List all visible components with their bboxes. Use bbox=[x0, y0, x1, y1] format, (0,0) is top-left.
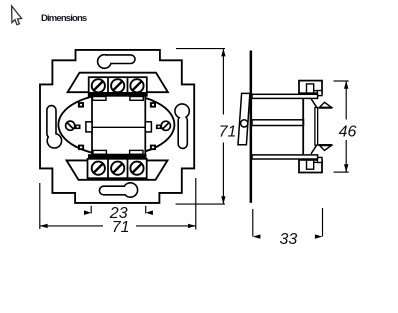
front view: contact square top-left bbox=[78, 102, 84, 108]
front view: left claw screw bbox=[66, 121, 81, 130]
side view: top claw tooth bbox=[318, 102, 332, 108]
side view: middle bar bbox=[252, 120, 304, 126]
extension line: front left (bottom 71 dim) bbox=[39, 183, 41, 229]
svg-text:71: 71 bbox=[219, 124, 237, 141]
mouse cursor icon bbox=[12, 6, 22, 25]
front view: top lug right bbox=[130, 97, 143, 101]
side view: claw screw head bbox=[241, 120, 248, 127]
front view: bottom lug right bbox=[130, 150, 143, 154]
dimension line: right 71 upper segment bbox=[222, 49, 224, 115]
front view: contact square bottom-right bbox=[150, 145, 156, 151]
front view: central ellipse body bbox=[58, 94, 174, 156]
front view: left mid tab bbox=[86, 122, 92, 132]
extension line: front top (right 71 dim) bbox=[176, 48, 225, 50]
arrowhead: bottom 71 left bbox=[40, 224, 48, 228]
svg-text:33: 33 bbox=[280, 231, 298, 248]
front view: contact square bottom-left bbox=[78, 145, 84, 151]
front view: bottom terminal block divider 2 bbox=[127, 159, 129, 178]
arrowhead: 46 top bbox=[344, 81, 348, 89]
front view: right keyhole slot bbox=[176, 105, 189, 148]
front view: top terminal block box bbox=[89, 77, 147, 96]
arrowhead: 33 right bbox=[315, 234, 323, 238]
side view: bottom support bracket bbox=[299, 157, 322, 172]
extension line: side bottom (46 dim) bbox=[334, 171, 349, 173]
front view: bottom black clamp band bbox=[88, 154, 147, 159]
dimension line: right 71 lower segment bbox=[222, 143, 224, 205]
extension line: front bottom (right 71 dim) bbox=[176, 203, 225, 205]
front view: top terminal screw 3 bbox=[130, 79, 143, 92]
side view: claw lever bbox=[238, 93, 250, 144]
front view: top terminal screw 1 bbox=[92, 79, 105, 92]
front view: switch insert plate outline (71 x 71) bbox=[40, 50, 194, 203]
extension line: front right (bottom 71 dim) bbox=[195, 178, 197, 230]
extension stub: 23 dim left bbox=[90, 206, 92, 214]
front view: top terminal screw 2 bbox=[111, 79, 124, 92]
side view: claw strip bbox=[315, 108, 318, 146]
front view: top terminal block divider 1 bbox=[107, 77, 109, 96]
arrowhead: 46 bottom bbox=[344, 164, 348, 172]
front view: top keyhole slot bbox=[98, 56, 134, 68]
arrowhead: 33 left bbox=[253, 234, 261, 238]
dimension line: bottom 71 left segment bbox=[40, 225, 103, 227]
front view: top terminal trapezoid housing bbox=[68, 73, 168, 93]
svg-text:46: 46 bbox=[339, 123, 357, 140]
front view: bottom terminal block box bbox=[88, 159, 147, 178]
front view: central rocker frame (23 wide) bbox=[92, 96, 145, 155]
front view: rocker mid split line bbox=[92, 126, 145, 128]
front view: top terminal block divider 2 bbox=[127, 77, 129, 96]
front view: bottom keyhole slot bbox=[100, 184, 137, 197]
dimension line: 46 upper segment bbox=[345, 81, 347, 120]
front view: top black clamp band bbox=[88, 92, 147, 97]
side view: body right edge bbox=[302, 98, 304, 154]
front view: bottom terminal screw 2 bbox=[111, 162, 124, 175]
side view: top plate bbox=[252, 94, 318, 98]
front view: bottom lug left bbox=[93, 150, 106, 154]
extension line: 33 dim left bbox=[252, 209, 254, 237]
side view: top support bracket bbox=[299, 81, 322, 96]
front view: bottom terminal screw 1 bbox=[92, 162, 105, 175]
front view: top lug left bbox=[93, 97, 106, 101]
side view: bottom diagonal bbox=[311, 145, 317, 154]
front view: right mid tab bbox=[145, 122, 151, 132]
side view: top diagonal bbox=[311, 99, 317, 108]
front view: bottom terminal block divider 1 bbox=[107, 159, 109, 178]
front view: bottom terminal screw 3 bbox=[130, 162, 143, 175]
arrowhead: 23 right (outside) bbox=[146, 210, 153, 215]
front view: left keyhole slot bbox=[48, 106, 61, 147]
svg-text:71: 71 bbox=[112, 219, 130, 236]
side view: wall line bbox=[250, 51, 253, 203]
arrowhead: 23 left (outside) bbox=[84, 210, 91, 215]
arrowhead: bottom 71 right bbox=[188, 224, 196, 228]
arrowhead: right 71 bottom bbox=[221, 196, 225, 204]
side view: bottom claw tooth bbox=[318, 145, 332, 151]
front view: right claw screw bbox=[156, 121, 171, 130]
extension stub: 23 dim right bbox=[145, 206, 147, 214]
arrowhead: right 71 top bbox=[221, 49, 225, 57]
svg-text:Dimensions: Dimensions bbox=[41, 13, 87, 24]
extension line: side top (46 dim) bbox=[334, 80, 349, 82]
extension line: 33 dim right bbox=[322, 208, 324, 237]
front view: contact square top-right bbox=[150, 102, 156, 108]
dimension line: 46 lower segment bbox=[345, 140, 347, 172]
dimension line: bottom 71 right segment bbox=[136, 225, 196, 227]
side view: bottom plate bbox=[252, 155, 318, 159]
front view: bottom terminal trapezoid housing bbox=[67, 160, 168, 179]
